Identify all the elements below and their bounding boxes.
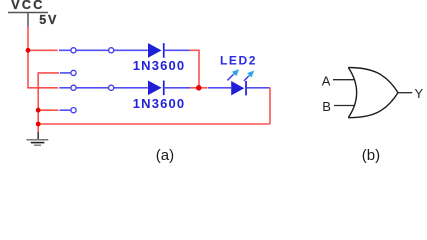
svg-text:LED2: LED2 bbox=[220, 54, 257, 68]
svg-text:1N3600: 1N3600 bbox=[133, 58, 185, 73]
svg-text:(a): (a) bbox=[156, 147, 174, 164]
svg-text:(b): (b) bbox=[362, 147, 380, 164]
svg-text:Y: Y bbox=[415, 86, 424, 101]
svg-text:5V: 5V bbox=[39, 13, 58, 27]
svg-text:B: B bbox=[322, 99, 331, 114]
svg-text:VCC: VCC bbox=[11, 0, 44, 12]
svg-text:1N3600: 1N3600 bbox=[133, 96, 185, 111]
svg-text:A: A bbox=[322, 74, 331, 89]
